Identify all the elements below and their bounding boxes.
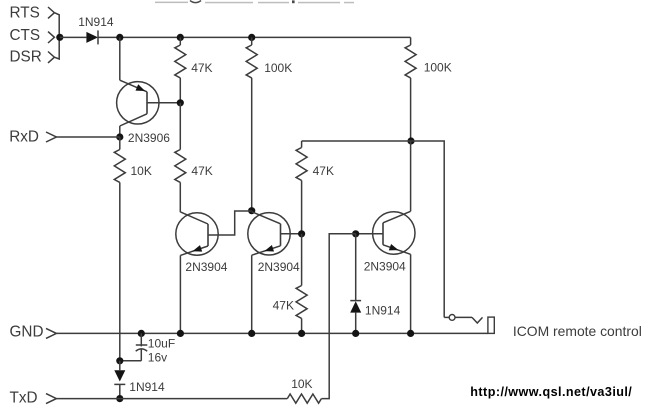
capacitor C1 10uF 16v [120,333,147,360]
svg-text:DSR: DSR [10,49,42,66]
diode D2 1N914 (to TxD) [114,361,125,399]
diode D3 1N914 (to GND) [350,234,361,334]
connector J1 phone plug (ICOM remote) [444,315,494,334]
node top bus / R1 [177,34,184,41]
svg-text:100K: 100K [264,61,292,75]
svg-text:1N914: 1N914 [129,380,165,394]
wire Q2 base jog [208,211,252,235]
svg-text:RTS: RTS [10,5,40,22]
svg-text:2N3906: 2N3906 [128,131,170,145]
node CTS bracket junction [56,34,63,41]
wire Q3 base [281,233,302,235]
port label TxD [10,390,57,407]
transistor Q1 2N3906 (PNP) [117,80,159,126]
node top bus / R2 [248,34,255,41]
port label RxD [9,129,56,146]
node D2 / TxD [116,395,123,402]
svg-text:ICOM remote control: ICOM remote control [513,323,642,339]
resistor R6 47K [296,141,307,234]
svg-text:CTS: CTS [10,27,41,44]
node top bus / Q1 emitter [116,34,123,41]
svg-text:47K: 47K [191,164,212,178]
svg-text:47K: 47K [313,164,334,178]
svg-text:2N3904: 2N3904 [258,260,300,274]
node Q4 base / D3 / TxD riser [352,230,359,237]
node Q1 base / R1 / R5 [177,99,184,106]
transistor Q2 2N3904 [176,212,218,256]
svg-text:TxD: TxD [10,390,38,407]
svg-text:10uF: 10uF [148,336,175,350]
svg-text:100K: 100K [424,61,452,75]
node GND / D3 [352,330,359,337]
cropped page title remnants [155,0,354,3]
transistor Q4 2N3904 [373,211,415,254]
wire Q1 base [147,102,180,104]
port label CTS [10,27,55,44]
resistor R2 100K [246,37,257,210]
transistor Q3 2N3904 [248,212,290,256]
svg-text:2N3904: 2N3904 [364,259,406,273]
wire Q1 collector to RxD node [119,126,121,137]
wire GND bus [56,332,488,334]
wire node to R6 top [302,140,411,142]
node R3 / R6 / Q4 collector / jack [407,137,414,144]
svg-text:16v: 16v [148,350,167,364]
resistor R5 47K [175,103,186,212]
resistor R3 100K [405,37,416,141]
wire RTS-CTS-DSR bracket [54,13,59,59]
svg-text:47K: 47K [273,299,294,313]
wire Q4 collector riser [410,141,412,211]
svg-text:10K: 10K [291,377,312,391]
wire Q4 emitter to GND [410,254,412,333]
svg-text:47K: 47K [191,61,212,75]
wire top supply bus [98,36,411,38]
svg-text:http://www.qsl.net/va3iul/: http://www.qsl.net/va3iul/ [470,385,632,399]
wire Q4 base [356,233,383,235]
resistor R4 10K [114,137,125,361]
svg-text:10K: 10K [131,164,152,178]
resistor R1 47K [175,37,186,102]
port label GND [10,324,57,341]
svg-text:1N914: 1N914 [365,303,401,317]
wire TxD [56,398,287,400]
node Q3 base / R6 / R7 [298,230,305,237]
svg-text:GND: GND [10,324,44,341]
wire Q3 emitter to GND [251,255,253,333]
node GND / Q2 emitter [177,330,184,337]
wire RxD [56,136,119,138]
diode D1 1N914 (series) [86,30,98,44]
resistor R8 10K (series TxD) [287,394,321,403]
svg-text:RxD: RxD [9,129,39,146]
node GND / Q4 emitter [407,330,414,337]
svg-text:1N914: 1N914 [78,15,114,29]
node GND / Q3 emitter [248,330,255,337]
wire CTS node to D1 anode [60,36,87,38]
node GND / C1 [138,330,145,337]
wire node to jack riser [411,141,444,317]
node RxD / Q1 collector / R4 [116,133,123,140]
wire Q4 base node to TxD riser and down to R8 [321,234,355,399]
node C1 / D2 / R4 [116,357,123,364]
port label DSR [10,49,55,66]
svg-text:2N3904: 2N3904 [185,260,227,274]
node GND / R7 [298,330,305,337]
port label RTS [10,5,55,22]
node R2 / Q2 base / Q3 collector [248,207,255,214]
resistor R7 47K [296,234,307,334]
wire Q1 emitter riser [119,37,121,80]
wire Q2 emitter to GND [179,255,181,333]
